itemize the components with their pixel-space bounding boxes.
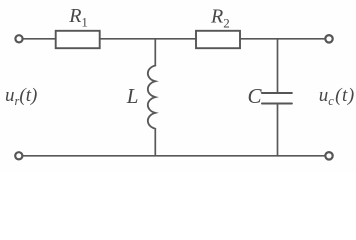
svg-text:ur(t): ur(t): [5, 85, 37, 108]
resistor R1: [56, 31, 100, 48]
wire node A down to inductor: [154, 39, 156, 66]
wire bottom rail: [23, 155, 325, 157]
wire inductor to bottom rail: [154, 129, 156, 156]
wire input to R1: [23, 38, 55, 40]
inductor L: [148, 66, 156, 129]
terminal output bottom: [325, 152, 332, 159]
svg-text:R2: R2: [210, 6, 230, 31]
capacitor C bottom plate: [262, 102, 292, 104]
wire capacitor to bottom rail: [277, 104, 279, 156]
terminal input bottom: [15, 152, 22, 159]
wire R1 to R2 through node A: [100, 38, 196, 40]
wire R2 to output terminal through node B: [240, 38, 325, 40]
terminal input top: [15, 35, 22, 42]
terminal output top: [325, 35, 332, 42]
capacitor C top plate: [262, 92, 292, 94]
svg-text:C: C: [248, 84, 263, 108]
wire node B down to capacitor: [277, 39, 279, 93]
svg-text:L: L: [126, 84, 139, 108]
svg-text:uc(t): uc(t): [319, 85, 355, 108]
resistor R2: [196, 31, 240, 48]
svg-text:R1: R1: [68, 5, 88, 29]
